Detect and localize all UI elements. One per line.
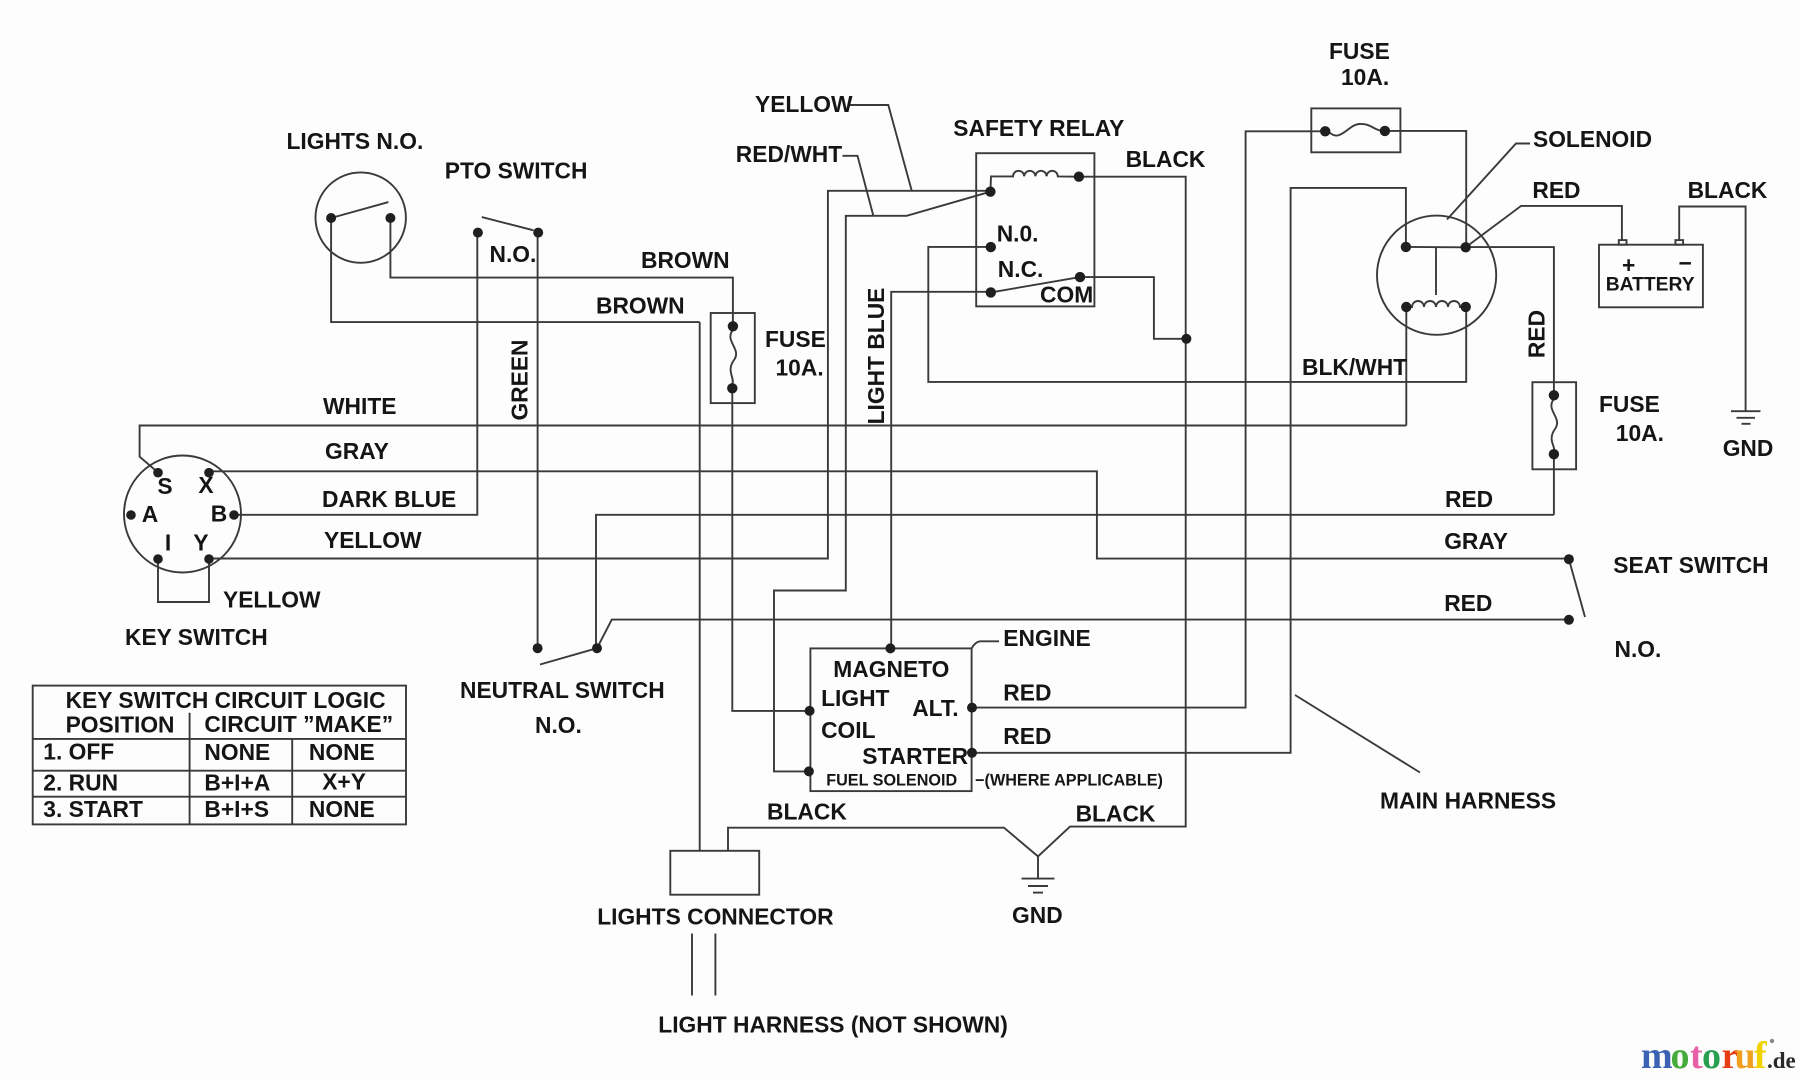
label BROWN wire 2: [596, 293, 685, 319]
svg-text:RED: RED: [1445, 486, 1493, 512]
safety relay coil: [990, 171, 1079, 192]
svg-text:COIL: COIL: [821, 717, 876, 743]
label FUSE 10A. for F1: [765, 326, 826, 381]
svg-text:BLACK: BLACK: [1076, 801, 1156, 827]
fuse F3 terminals: [1549, 390, 1559, 459]
label FUSE 10A. for F2: [1329, 38, 1390, 90]
svg-text:FUEL SOLENOID: FUEL SOLENOID: [826, 771, 957, 789]
wire BLACK from battery minus to ground: [1679, 207, 1745, 412]
svg-text:NONE: NONE: [309, 739, 375, 765]
svg-text:DARK BLUE: DARK BLUE: [322, 486, 456, 512]
svg-text:BROWN: BROWN: [641, 247, 730, 273]
label (WHERE APPLICABLE): [975, 771, 1163, 789]
label YELLOW jumper: [223, 587, 321, 613]
label ALT.: [912, 695, 958, 721]
svg-text:o: o: [1671, 1035, 1690, 1077]
key switch terminals S X A B I Y: [126, 468, 239, 564]
wire RED from neutral switch corner to fuse F3: [596, 515, 1554, 648]
svg-text:B+I+A: B+I+A: [204, 770, 270, 796]
svg-text:N.O.: N.O.: [535, 712, 582, 738]
fuse F2 10A box: [1311, 108, 1400, 152]
svg-text:POSITION: POSITION: [66, 712, 175, 738]
lights connector box: [670, 851, 759, 895]
pointer line for ENGINE label: [972, 641, 999, 648]
svg-text:LIGHTS CONNECTOR: LIGHTS CONNECTOR: [597, 903, 833, 929]
fuse F2 element: [1329, 124, 1381, 136]
wire from brown corner down to lights connector: [699, 322, 701, 851]
wire light harness pin 2: [714, 934, 716, 996]
fuse F1 10A box: [711, 313, 755, 403]
svg-text:N.0.: N.0.: [997, 221, 1039, 247]
solenoid contact bar: [1406, 247, 1466, 295]
svg-text:1. OFF: 1. OFF: [43, 739, 114, 765]
pointer line for YELLOW label: [850, 105, 912, 191]
wire LIGHT BLUE from safety relay N.C. to engine MAGNETO terminal: [891, 292, 990, 649]
safety relay blade N.C. to COM: [991, 277, 1080, 292]
label RED neutral wire: [1444, 590, 1492, 616]
label YELLOW key switch wire: [324, 527, 422, 553]
wire RED from neutral switch to seat switch: [597, 620, 1569, 649]
label ENGINE: [1003, 625, 1090, 651]
svg-text:A: A: [142, 501, 158, 527]
svg-text:PTO SWITCH: PTO SWITCH: [445, 158, 588, 184]
svg-text:B: B: [211, 501, 227, 527]
ground right (battery GND): [1731, 411, 1761, 424]
svg-text:NONE: NONE: [309, 796, 375, 822]
svg-text:BROWN: BROWN: [596, 293, 685, 319]
motoruf.de watermark logo: [1641, 1035, 1796, 1077]
svg-text:GRAY: GRAY: [325, 438, 389, 464]
svg-text:GREEN: GREEN: [506, 339, 532, 420]
label LIGHTS CONNECTOR: [597, 903, 833, 929]
svg-text:o: o: [1702, 1035, 1721, 1077]
svg-text:Y: Y: [193, 530, 208, 556]
wire from fuse F1 bottom to engine LIGHT COIL terminal: [732, 388, 809, 711]
table row 2. RUN: [43, 769, 366, 796]
svg-text:KEY SWITCH CIRCUIT LOGIC: KEY SWITCH CIRCUIT LOGIC: [66, 687, 386, 713]
fuse F2 terminals: [1320, 126, 1390, 137]
svg-text:RED/WHT: RED/WHT: [736, 141, 842, 167]
wire BLACK from lights connector to engine ground: [728, 828, 1038, 857]
battery plus minus symbols: [1622, 250, 1692, 278]
pointer line for SOLENOID label: [1447, 144, 1530, 220]
svg-text:BATTERY: BATTERY: [1606, 275, 1695, 296]
svg-text:u: u: [1735, 1035, 1756, 1077]
svg-text:FUSE: FUSE: [1329, 38, 1390, 64]
svg-text:NONE: NONE: [204, 739, 270, 765]
svg-text:ALT.: ALT.: [912, 695, 958, 721]
wire RED/WHT from safety relay coil to engine FUEL SOLENOID terminal: [774, 192, 990, 772]
wire BLK/WHT from safety relay N.O. to solenoid: [928, 247, 1466, 382]
label BLACK engine right: [1076, 801, 1156, 827]
wire light harness pin 1: [691, 934, 693, 996]
svg-text:YELLOW: YELLOW: [755, 91, 853, 117]
svg-text:BLACK: BLACK: [1688, 177, 1768, 203]
neutral switch terminals: [533, 643, 602, 653]
svg-text:N.O.: N.O.: [1615, 636, 1662, 662]
label NEUTRAL SWITCH: [460, 677, 665, 703]
neutral switch blade: [540, 648, 597, 664]
wire YELLOW from key switch Y to safety relay coil: [209, 191, 990, 559]
svg-text:WHITE: WHITE: [323, 393, 396, 419]
label N.C. relay: [998, 256, 1044, 282]
wire RED from engine STARTER terminal to solenoid: [972, 188, 1406, 753]
svg-text:KEY SWITCH: KEY SWITCH: [125, 624, 268, 650]
label GRAY: [325, 438, 389, 464]
svg-text:I: I: [165, 530, 171, 556]
label BROWN wire 1: [641, 247, 730, 273]
wire RED from engine ALT. terminal to fuse F2: [972, 131, 1325, 707]
table header row: [66, 711, 394, 738]
label N.O. for PTO switch: [490, 241, 537, 267]
label GREEN rotated: [506, 339, 532, 420]
label LIGHT HARNESS (NOT SHOWN): [658, 1012, 1008, 1038]
svg-text:LIGHT BLUE: LIGHT BLUE: [863, 288, 889, 425]
svg-text:−(WHERE APPLICABLE): −(WHERE APPLICABLE): [975, 771, 1163, 789]
junction on black wire: [1181, 334, 1191, 344]
battery minus terminal tab: [1675, 240, 1683, 245]
svg-text:10A.: 10A.: [776, 355, 824, 381]
label BLACK engine left: [767, 799, 847, 825]
label FUEL SOLENOID: [826, 771, 957, 789]
key switch circuit logic table frame: [33, 686, 406, 825]
label DARK BLUE: [322, 486, 456, 512]
svg-text:GND: GND: [1012, 902, 1063, 928]
PTO switch blade: [482, 217, 534, 230]
svg-text:10A.: 10A.: [1616, 420, 1664, 446]
PTO switch terminals: [473, 228, 543, 238]
safety relay K1 box: [976, 153, 1094, 306]
svg-text:FUSE: FUSE: [765, 326, 826, 352]
svg-text:NEUTRAL SWITCH: NEUTRAL SWITCH: [460, 677, 665, 703]
label LIGHTS N.O.: [287, 128, 424, 154]
label MAIN HARNESS: [1380, 788, 1556, 814]
wire BROWN from lights switch left terminal to lights connector: [331, 218, 700, 322]
label YELLOW pointer: [755, 91, 853, 117]
svg-text:FUSE: FUSE: [1599, 391, 1660, 417]
wire GREEN from PTO switch to neutral switch: [537, 233, 539, 649]
svg-text:SOLENOID: SOLENOID: [1533, 126, 1652, 152]
label COM relay: [1040, 282, 1093, 308]
svg-text:X: X: [198, 472, 213, 498]
wire WHITE from key switch S to solenoid: [140, 426, 1407, 472]
svg-text:LIGHT HARNESS (NOT SHOWN): LIGHT HARNESS (NOT SHOWN): [658, 1012, 1008, 1038]
label SAFETY RELAY: [953, 115, 1124, 141]
lights switch SW1 circle: [316, 172, 406, 262]
label COIL: [821, 717, 876, 743]
wire DARK BLUE from key switch B to PTO switch: [234, 233, 477, 515]
wire RED from solenoid to fuse F3: [1466, 247, 1554, 395]
svg-text:LIGHT: LIGHT: [821, 685, 889, 711]
seat switch blade: [1569, 559, 1585, 617]
svg-text:X+Y: X+Y: [322, 769, 366, 795]
label GND middle: [1012, 902, 1063, 928]
label N.0. relay: [997, 221, 1039, 247]
label N.O. seat switch: [1615, 636, 1662, 662]
label WHITE: [323, 393, 396, 419]
safety relay terminals: [985, 172, 1085, 298]
label LIGHT BLUE rotated: [863, 288, 889, 425]
solenoid terminals: [1401, 242, 1471, 312]
svg-text:RED: RED: [1532, 177, 1580, 203]
label MAGNETO: [833, 656, 949, 682]
fuse F3 10A box: [1532, 382, 1576, 469]
svg-text:S: S: [157, 473, 172, 499]
engine terminals: magneto, alt, starter, light coil, fuel solenoid: [804, 643, 977, 776]
svg-text:2. RUN: 2. RUN: [43, 770, 118, 796]
wire from fuse F2 to solenoid: [1385, 131, 1466, 247]
wire BROWN from lights switch right terminal to fuse F1: [390, 218, 733, 326]
svg-text:ENGINE: ENGINE: [1003, 625, 1090, 651]
battery plus terminal tab: [1619, 240, 1627, 245]
fuse F3 element: [1551, 399, 1557, 451]
label RED rotated fuse wire: [1524, 310, 1550, 358]
table row 3. START: [43, 796, 374, 822]
svg-text:BLK/WHT: BLK/WHT: [1302, 354, 1407, 380]
fuse F1 terminals: [727, 321, 738, 393]
svg-text:GND: GND: [1723, 435, 1774, 461]
svg-text:SEAT SWITCH: SEAT SWITCH: [1613, 552, 1768, 578]
label RED starter wire: [1003, 723, 1051, 749]
label GRAY right: [1444, 528, 1508, 554]
svg-text:3. START: 3. START: [43, 796, 143, 822]
key switch circle: [124, 456, 241, 573]
svg-text:COM: COM: [1040, 282, 1093, 308]
svg-text:RED: RED: [1524, 310, 1550, 358]
svg-text:MAGNETO: MAGNETO: [833, 656, 949, 682]
label LIGHT: [821, 685, 889, 711]
label RED/WHT pointer: [736, 141, 842, 167]
svg-text:STARTER: STARTER: [862, 743, 968, 769]
label RED long wire: [1445, 486, 1493, 512]
pointer line for MAIN HARNESS label: [1295, 695, 1420, 773]
svg-text:N.C.: N.C.: [998, 256, 1044, 282]
label BLACK battery wire: [1688, 177, 1768, 203]
svg-text:B+I+S: B+I+S: [204, 796, 269, 822]
wire from solenoid bottom left terminal to white wire: [1405, 307, 1407, 426]
label BLACK relay wire: [1126, 146, 1206, 172]
lights switch terminals: [326, 213, 395, 223]
lights switch blade: [331, 202, 388, 218]
svg-text:.de: .de: [1767, 1048, 1796, 1073]
engine box: [810, 648, 971, 791]
svg-text:N.O.: N.O.: [490, 241, 537, 267]
seat switch terminals: [1564, 554, 1574, 625]
label GND right: [1723, 435, 1774, 461]
svg-text:BLACK: BLACK: [767, 799, 847, 825]
label PTO SWITCH: [445, 158, 588, 184]
svg-text:−: −: [1679, 250, 1692, 276]
svg-text:m: m: [1641, 1035, 1673, 1077]
svg-text:YELLOW: YELLOW: [324, 527, 422, 553]
fuse F1 element: [730, 330, 736, 384]
solenoid circle: [1377, 216, 1496, 335]
label SOLENOID: [1533, 126, 1652, 152]
label STARTER: [862, 743, 968, 769]
svg-text:BLACK: BLACK: [1126, 146, 1206, 172]
table row 1. OFF: [43, 739, 374, 766]
label FUSE 10A. for F3: [1599, 391, 1664, 446]
svg-text:LIGHTS N.O.: LIGHTS N.O.: [287, 128, 424, 154]
label BATTERY: [1606, 275, 1695, 296]
svg-text:f: f: [1754, 1035, 1768, 1077]
key switch pin letters S X A B I Y: [142, 472, 227, 556]
svg-text:MAIN HARNESS: MAIN HARNESS: [1380, 788, 1556, 814]
svg-text:RED: RED: [1003, 723, 1051, 749]
wire YELLOW jumper loop key switch I to Y: [158, 559, 209, 602]
svg-text:GRAY: GRAY: [1444, 528, 1508, 554]
svg-text:10A.: 10A.: [1341, 64, 1389, 90]
svg-text:CIRCUIT ”MAKE”: CIRCUIT ”MAKE”: [204, 711, 393, 737]
table title KEY SWITCH CIRCUIT LOGIC: [66, 687, 386, 713]
wire from fuse F3 bottom to long red wire: [1553, 454, 1555, 515]
label RED battery wire: [1532, 177, 1580, 203]
label SEAT SWITCH: [1613, 552, 1768, 578]
wire from safety relay COM to black wire junction: [1080, 277, 1186, 339]
svg-text:RED: RED: [1003, 679, 1051, 705]
label RED alt wire: [1003, 679, 1051, 705]
svg-text:RED: RED: [1444, 590, 1492, 616]
svg-text:SAFETY RELAY: SAFETY RELAY: [953, 115, 1124, 141]
label KEY SWITCH: [125, 624, 268, 650]
ground middle (engine GND): [1022, 879, 1055, 893]
pointer line for RED/WHT label: [843, 156, 874, 216]
label BLK/WHT: [1302, 354, 1407, 380]
svg-text:YELLOW: YELLOW: [223, 587, 321, 613]
wire BLACK from safety relay coil to ground: [1038, 177, 1186, 879]
wire GRAY from key switch X to seat switch: [209, 471, 1569, 558]
label N.O. for neutral switch: [535, 712, 582, 738]
solenoid coil: [1411, 301, 1462, 307]
wire RED from solenoid to battery plus: [1466, 206, 1622, 247]
battery box: [1599, 245, 1703, 308]
